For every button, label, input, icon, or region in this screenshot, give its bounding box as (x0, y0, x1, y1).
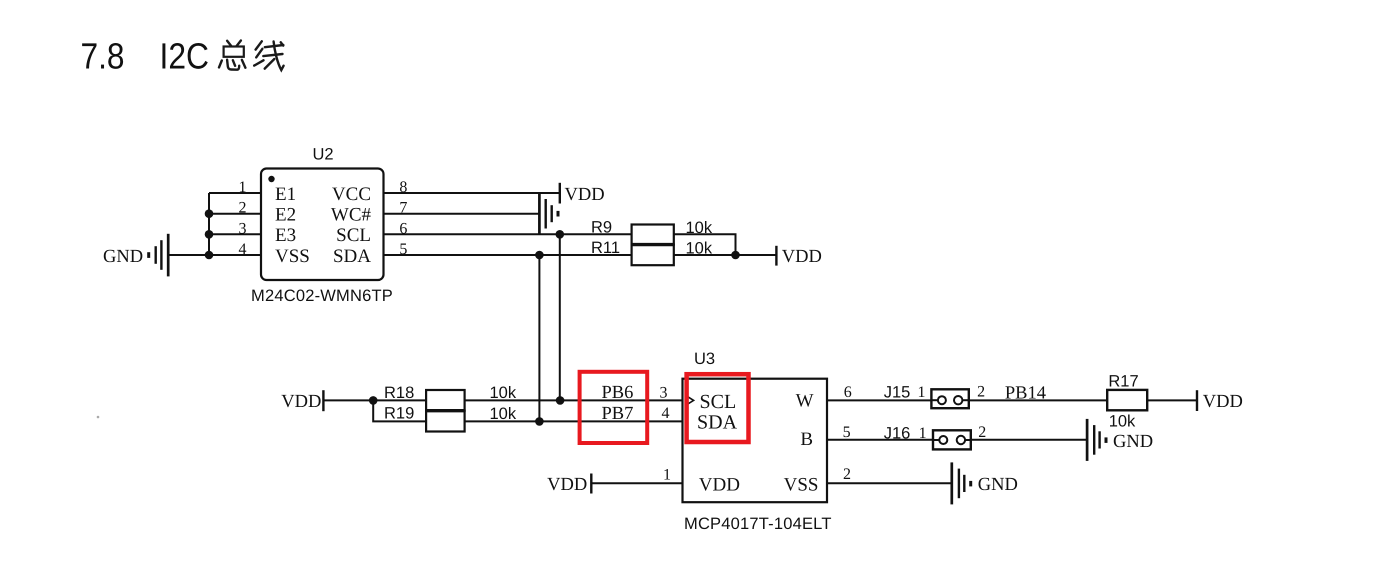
wire R18 to U3 SCL (465, 399, 683, 401)
hanzi ZONG (总) (219, 41, 245, 70)
svg-text:7.8: 7.8 (81, 36, 125, 77)
svg-text:GND: GND (978, 475, 1018, 495)
svg-text:2: 2 (977, 383, 985, 400)
junction node U2 pin2 (205, 209, 214, 218)
svg-text:10k: 10k (490, 384, 517, 402)
jumper J16 pad 1 (939, 436, 947, 444)
junction node R9 R11 join (731, 251, 740, 260)
jumper J15 pad 2 (954, 396, 962, 404)
svg-text:SCL: SCL (336, 225, 371, 246)
svg-text:R9: R9 (591, 219, 612, 237)
wire SDA vertical drop (538, 255, 540, 421)
resistor R18 body (426, 390, 465, 411)
svg-text:10k: 10k (490, 405, 517, 423)
wire U2 pin8 to VDD (384, 192, 560, 194)
wire U2 pin3 stub (209, 233, 261, 235)
svg-text:VDD: VDD (547, 475, 587, 495)
junction node SDA column bottom (535, 417, 544, 426)
svg-text:2: 2 (978, 424, 986, 441)
svg-text:I2C: I2C (160, 36, 210, 77)
svg-text:VDD: VDD (281, 392, 321, 412)
junction node U2 pin4 (205, 251, 214, 260)
wire R17 to VDD (1147, 399, 1197, 401)
wire U2 pin7 to ground (384, 213, 540, 215)
svg-text:J16: J16 (884, 424, 911, 442)
ground symbol at U3 VSS (952, 462, 971, 504)
svg-text:1: 1 (663, 467, 671, 484)
svg-text:SCL: SCL (700, 391, 737, 413)
wire U2 pin5 SDA to R11 (384, 254, 632, 256)
junction node U2 pin3 (205, 230, 214, 239)
power symbol VDD at U3 pin1 (590, 474, 592, 494)
hanzi XIAN (线) (254, 41, 283, 70)
ground symbol at U2 WC# (539, 193, 558, 235)
jumper J16 pad 2 (957, 436, 965, 444)
svg-text:SDA: SDA (333, 246, 371, 267)
svg-text:M24C02-WMN6TP: M24C02-WMN6TP (251, 287, 393, 305)
svg-text:4: 4 (662, 405, 670, 422)
wire SCL vertical drop (559, 234, 561, 400)
wire J16 pad1 link (933, 439, 939, 441)
wire U2 pin6 SCL to R9 (384, 233, 632, 235)
svg-text:SDA: SDA (697, 412, 738, 434)
power symbol VDD left of R18 (322, 390, 324, 411)
resistor pack shared edge (632, 243, 674, 246)
svg-text:E2: E2 (275, 205, 296, 226)
svg-text:6: 6 (844, 384, 852, 401)
ground symbol at J16 (1087, 419, 1106, 461)
svg-text:GND: GND (103, 247, 143, 267)
svg-text:VDD: VDD (699, 475, 740, 496)
wire J15 to R17 (969, 399, 1107, 401)
jumper J15 body (931, 389, 968, 408)
svg-text:R17: R17 (1108, 373, 1138, 391)
highlight red box SCL SDA (687, 374, 749, 442)
resistor R9 body (632, 225, 674, 245)
svg-text:GND: GND (1113, 432, 1153, 452)
wire U2 pin1 stub (209, 192, 261, 194)
wire GND to U2 pin4 (168, 254, 261, 256)
op chip U2 box (261, 169, 384, 281)
svg-text:B: B (800, 429, 813, 450)
wire J15 pad1 link (931, 399, 938, 401)
wire R11 right to VDD (674, 254, 777, 256)
resistor R11 body (632, 245, 674, 266)
svg-text:PB14: PB14 (1005, 384, 1046, 404)
power symbol VDD at U2 pin8 (559, 183, 561, 204)
svg-text:R11: R11 (591, 239, 620, 257)
resistor pack shared edge (426, 409, 465, 412)
power symbol VDD right of R17 (1196, 390, 1198, 411)
junction node SDA column top (535, 251, 544, 260)
svg-text:1: 1 (918, 384, 926, 401)
junction node SCL column bottom (556, 396, 565, 405)
svg-text:J15: J15 (884, 383, 911, 401)
stray speck (97, 416, 100, 419)
svg-text:PB6: PB6 (602, 383, 634, 403)
svg-text:3: 3 (660, 385, 668, 402)
svg-text:VSS: VSS (784, 475, 819, 496)
power symbol VDD right of R11 (775, 246, 777, 266)
wire J15 pad2 link (962, 399, 968, 401)
svg-text:E3: E3 (275, 225, 296, 246)
resistor R19 body (426, 411, 465, 432)
resistor R17 body (1107, 390, 1147, 410)
svg-text:VDD: VDD (565, 185, 605, 205)
svg-text:VSS: VSS (275, 246, 310, 267)
junction node VDD split (369, 396, 378, 405)
svg-text:VCC: VCC (332, 184, 371, 205)
U3 pin3 clock arrow (688, 397, 694, 405)
highlight red box PB6 PB7 (580, 372, 648, 443)
wire U2 pin2 stub (209, 213, 261, 215)
wire U3 pin5 B to J16 (827, 439, 933, 441)
svg-text:U3: U3 (694, 350, 715, 368)
junction node SCL column top (556, 230, 565, 239)
svg-text:PB7: PB7 (602, 404, 634, 424)
svg-text:10k: 10k (1109, 413, 1136, 431)
ground symbol left GND (149, 234, 169, 277)
wire J16 to GND (971, 439, 1087, 441)
svg-text:5: 5 (843, 424, 851, 441)
wire VDD branch down to R19 (373, 400, 426, 421)
svg-text:2: 2 (843, 466, 851, 483)
svg-text:W: W (796, 391, 814, 412)
wire VDD to U3 pin1 (591, 482, 682, 484)
svg-text:WC#: WC# (331, 205, 372, 226)
svg-text:MCP4017T-104ELT: MCP4017T-104ELT (684, 515, 832, 533)
jumper J16 body (933, 430, 971, 449)
wire J16 pad2 link (965, 439, 971, 441)
svg-text:VDD: VDD (1203, 392, 1243, 412)
wire VDD to R18 (323, 399, 426, 401)
svg-text:R19: R19 (384, 404, 414, 422)
wire R9 right (674, 234, 736, 255)
svg-text:R18: R18 (384, 384, 414, 402)
svg-text:VDD: VDD (782, 247, 822, 267)
svg-text:U2: U2 (313, 146, 334, 164)
U2 pin1 indicator dot (268, 176, 274, 182)
svg-text:1: 1 (919, 425, 927, 442)
wire R19 to U3 SDA (465, 420, 683, 422)
jumper J15 pad 1 (938, 396, 946, 404)
svg-text:E1: E1 (275, 184, 296, 205)
chip U3 box (683, 379, 828, 503)
wire U3 pin6 W to J15 (827, 399, 931, 401)
wire U3 pin2 VSS to GND (827, 482, 952, 484)
wire left bus vertical (208, 193, 210, 255)
